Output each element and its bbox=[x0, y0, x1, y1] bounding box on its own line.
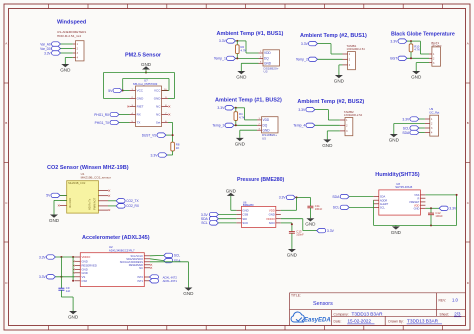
svg-text:Ambient Temp (#2, BUS2): Ambient Temp (#2, BUS2) bbox=[297, 99, 364, 105]
svg-text:REV:: REV: bbox=[439, 298, 447, 302]
svg-text:ADXL-INT1: ADXL-INT1 bbox=[163, 279, 178, 283]
ground bbox=[141, 62, 152, 73]
svg-text:T3DD13 B3AR: T3DD13 B3AR bbox=[407, 319, 439, 324]
ground bbox=[183, 288, 194, 296]
connector U9 I2C_Rpt bbox=[425, 107, 440, 136]
ground bbox=[68, 311, 79, 319]
wire bbox=[231, 199, 237, 210]
net label Var_D0 bbox=[40, 46, 60, 51]
svg-text:SCL: SCL bbox=[201, 221, 208, 225]
IC U7 PMS7003 bbox=[127, 79, 170, 127]
svg-text:1uF: 1uF bbox=[66, 289, 71, 293]
svg-text:SCL: SCL bbox=[380, 206, 386, 210]
svg-text:SCL: SCL bbox=[403, 126, 410, 130]
net label SDA bbox=[201, 217, 219, 222]
wire bbox=[419, 127, 425, 129]
svg-text:DUST_VS: DUST_VS bbox=[142, 133, 157, 137]
svg-text:Ambient Temp (#2, BUS1): Ambient Temp (#2, BUS1) bbox=[300, 33, 367, 39]
connector TAMB1 1X03HDR-2.54 bbox=[343, 44, 366, 70]
wire bbox=[349, 196, 373, 198]
wire bbox=[218, 218, 236, 220]
wire bbox=[236, 40, 259, 53]
wire bbox=[236, 57, 259, 59]
wire bbox=[61, 44, 73, 53]
net label DUST_VS bbox=[142, 133, 166, 138]
wire bbox=[318, 58, 343, 60]
net label PHG1_TX bbox=[95, 120, 119, 125]
svg-text:Var_D0: Var_D0 bbox=[40, 47, 51, 51]
ground bbox=[334, 75, 345, 83]
svg-text:1X03HDR-2.54: 1X03HDR-2.54 bbox=[344, 113, 363, 117]
svg-text:3.3V: 3.3V bbox=[39, 255, 47, 259]
wire bbox=[108, 205, 116, 207]
wire bbox=[419, 132, 425, 134]
svg-text:GND: GND bbox=[154, 97, 162, 101]
svg-text:4.7K: 4.7K bbox=[241, 49, 247, 53]
wire bbox=[419, 118, 425, 120]
net label 3.3V bbox=[39, 275, 56, 280]
svg-text:4.7K: 4.7K bbox=[239, 116, 245, 120]
wire VSS rail bbox=[425, 194, 457, 226]
svg-text:GND: GND bbox=[414, 206, 420, 210]
title block bbox=[290, 293, 466, 326]
wire 5V loop bbox=[123, 79, 169, 91]
svg-text:100nF: 100nF bbox=[435, 214, 443, 218]
svg-text:2/3: 2/3 bbox=[454, 312, 461, 317]
wire bbox=[407, 40, 429, 54]
svg-text:Vin GND: Vin GND bbox=[68, 198, 72, 208]
svg-text:Black Globe Temperature: Black Globe Temperature bbox=[391, 31, 455, 37]
wire bbox=[150, 262, 188, 288]
svg-text:ADDR: ADDR bbox=[380, 198, 387, 202]
svg-text:U5: U5 bbox=[262, 137, 266, 141]
svg-text:PM2.5 Sensor: PM2.5 Sensor bbox=[125, 53, 162, 59]
wire bbox=[394, 124, 425, 135]
svg-text:PHG1_TX: PHG1_TX bbox=[95, 121, 110, 125]
svg-text:U3: U3 bbox=[264, 70, 268, 74]
wire bbox=[234, 124, 257, 126]
svg-text:1.0: 1.0 bbox=[452, 297, 458, 302]
ground bbox=[49, 215, 60, 223]
wire bbox=[218, 222, 236, 224]
wire bbox=[119, 114, 130, 116]
net label PHG1_RX bbox=[94, 112, 119, 117]
ground bbox=[411, 71, 422, 79]
connector J1 US-ANEMOMETER1 HDR-M-2.54_1x4 bbox=[57, 30, 87, 61]
net label SDA bbox=[332, 194, 349, 199]
wire bbox=[315, 124, 340, 126]
svg-text:4.7K: 4.7K bbox=[414, 48, 420, 52]
net label CO2_RX bbox=[116, 204, 140, 209]
net label Temp_2 bbox=[296, 57, 318, 62]
section title Humidity(SHT35) bbox=[375, 172, 419, 178]
net label 3.3V bbox=[201, 212, 219, 217]
svg-text:SDA: SDA bbox=[174, 259, 181, 263]
wire bbox=[55, 276, 74, 278]
svg-text:Sensors: Sensors bbox=[313, 301, 333, 307]
svg-text:VDD: VDD bbox=[263, 118, 270, 122]
net label 5V bbox=[46, 193, 60, 198]
net label SCL bbox=[333, 205, 349, 210]
svg-text:RIET: RIET bbox=[137, 105, 144, 109]
wire bbox=[291, 233, 293, 249]
wire VDD bbox=[425, 207, 439, 213]
svg-text:HDR-M-2.54_1x4: HDR-M-2.54_1x4 bbox=[57, 34, 81, 38]
wire bbox=[119, 122, 130, 124]
svg-text:GND: GND bbox=[226, 189, 237, 194]
net label ADXL-INT2 bbox=[150, 275, 178, 280]
wire bbox=[61, 290, 73, 311]
svg-text:Windspeed: Windspeed bbox=[57, 20, 86, 26]
svg-text:GND: GND bbox=[137, 97, 145, 101]
wire GND loop bbox=[104, 73, 175, 99]
ground bbox=[287, 249, 298, 257]
wire bbox=[327, 131, 340, 140]
svg-text:5V: 5V bbox=[108, 89, 113, 93]
capacitor C11 100nF bbox=[307, 197, 322, 211]
connector BGT1 2P-Gem bbox=[429, 41, 442, 66]
svg-text:Ambient Temp (#1, BUS2): Ambient Temp (#1, BUS2) bbox=[215, 98, 282, 104]
svg-text:5V: 5V bbox=[46, 194, 51, 198]
svg-text:Accelerometer (ADXL345): Accelerometer (ADXL345) bbox=[82, 235, 150, 241]
svg-text:GND: GND bbox=[235, 141, 246, 146]
wire bbox=[167, 151, 173, 155]
svg-text:3.3V: 3.3V bbox=[39, 275, 47, 279]
svg-text:NC: NC bbox=[139, 266, 143, 270]
svg-text:HD Rx Tx: HD Rx Tx bbox=[88, 198, 92, 210]
svg-text:GND: GND bbox=[391, 230, 402, 235]
svg-text:3.3V: 3.3V bbox=[449, 207, 457, 211]
svg-text:1X03HDR-2.54: 1X03HDR-2.54 bbox=[347, 47, 366, 51]
wire bbox=[65, 58, 73, 65]
wire bbox=[315, 110, 340, 120]
wire bbox=[241, 63, 258, 71]
net label 5V bbox=[108, 88, 123, 93]
ground bbox=[322, 139, 333, 147]
net label Temp_4 bbox=[293, 123, 315, 128]
net label Temp_3 bbox=[212, 123, 234, 128]
resistor R2 4.7K bbox=[236, 41, 247, 59]
svg-text:INT2: INT2 bbox=[137, 275, 143, 279]
net label 3.3V bbox=[219, 39, 236, 44]
svg-text:Sheet:: Sheet: bbox=[440, 313, 450, 317]
resistor R10 4.7K bbox=[409, 41, 420, 58]
svg-text:1K: 1K bbox=[176, 146, 180, 150]
svg-text:15-02-2022: 15-02-2022 bbox=[348, 319, 372, 324]
net label SCL bbox=[164, 253, 181, 258]
svg-text:SCL: SCL bbox=[333, 206, 340, 210]
svg-text:3.3V: 3.3V bbox=[301, 42, 309, 46]
ground bbox=[60, 64, 71, 72]
svg-text:Ambient Temp (#1, BUS1): Ambient Temp (#1, BUS1) bbox=[217, 31, 284, 37]
net label 3.3V bbox=[301, 41, 318, 46]
wire ADDR to gnd rail bbox=[373, 200, 375, 225]
capacitor C9 1uF bbox=[58, 286, 70, 293]
svg-text:Pressure (BME280): Pressure (BME280) bbox=[237, 177, 285, 183]
ground bbox=[391, 225, 402, 234]
svg-text:GND: GND bbox=[141, 62, 152, 67]
svg-text:CS#: CS# bbox=[82, 279, 88, 283]
svg-text:GND: GND bbox=[49, 218, 60, 223]
svg-text:3.3V: 3.3V bbox=[279, 196, 287, 200]
svg-text:Date:: Date: bbox=[334, 320, 342, 324]
svg-text:CO2_RX: CO2_RX bbox=[126, 204, 140, 208]
svg-text:GND: GND bbox=[183, 291, 194, 296]
svg-text:RX: RX bbox=[137, 113, 141, 117]
wire bbox=[234, 107, 257, 120]
section title PM2.5 Sensor bbox=[125, 53, 162, 59]
wire bbox=[218, 214, 236, 216]
svg-text:ADXL345BCCZ-RL7: ADXL345BCCZ-RL7 bbox=[109, 248, 135, 252]
svg-text:INT1: INT1 bbox=[137, 279, 143, 283]
svg-text:Temp_2: Temp_2 bbox=[296, 58, 308, 62]
svg-text:TX: TX bbox=[137, 121, 141, 125]
EasyEDA logo bbox=[291, 312, 331, 324]
wire bbox=[430, 215, 432, 226]
wire bbox=[54, 200, 67, 214]
net label 3.3V bbox=[298, 107, 315, 112]
section title Ambient Temp (#1, BUS2) bbox=[215, 98, 282, 104]
svg-text:DQ: DQ bbox=[264, 57, 269, 61]
ground bbox=[236, 71, 247, 79]
resistor R4 4.7K bbox=[234, 108, 245, 126]
wire bbox=[150, 259, 164, 261]
svg-text:MHZ19B_CO2_sensor: MHZ19B_CO2_sensor bbox=[81, 176, 111, 180]
capacitor C13 100nF bbox=[289, 230, 304, 237]
svg-text:Temp_1: Temp_1 bbox=[214, 57, 226, 61]
IC U6 BME280 bbox=[236, 201, 280, 228]
net label SCL bbox=[201, 221, 218, 226]
net label 3.3V bbox=[390, 39, 407, 44]
section title Windspeed bbox=[57, 20, 86, 26]
wire bbox=[407, 57, 429, 59]
svg-text:M5-Cut_PM57003: M5-Cut_PM57003 bbox=[133, 82, 158, 86]
wire bbox=[339, 65, 343, 75]
wire bbox=[281, 196, 311, 210]
svg-text:Temp_3: Temp_3 bbox=[212, 124, 224, 128]
net label Temp_1 bbox=[214, 56, 236, 61]
svg-text:GND: GND bbox=[411, 74, 422, 79]
svg-text:CO2 Sensor (Winsen MHZ-19B): CO2 Sensor (Winsen MHZ-19B) bbox=[47, 165, 129, 171]
svg-text:GND: GND bbox=[60, 67, 71, 72]
net label ADXL-INT1 bbox=[150, 279, 178, 284]
svg-text:GND: GND bbox=[264, 62, 272, 66]
svg-text:SDA: SDA bbox=[380, 195, 386, 199]
svg-text:DQ: DQ bbox=[263, 124, 268, 128]
svg-text:3.3V: 3.3V bbox=[219, 39, 227, 43]
wire bbox=[60, 257, 62, 288]
wire bbox=[55, 256, 74, 258]
wire bbox=[416, 63, 429, 71]
net label 3.3V bbox=[439, 206, 457, 211]
wire SDO bbox=[281, 223, 293, 232]
net label 3.3V bbox=[402, 117, 419, 122]
svg-text:100nF: 100nF bbox=[296, 233, 304, 237]
wire gnd rail bbox=[374, 224, 457, 226]
svg-text:SDA: SDA bbox=[332, 195, 340, 199]
net label SDA bbox=[164, 258, 182, 263]
IC U3 DS18B20+ bbox=[259, 50, 280, 74]
svg-text:GND: GND bbox=[389, 137, 400, 142]
net label 3.3V bbox=[317, 228, 335, 233]
ground bbox=[235, 138, 246, 146]
svg-text:MHZ19B_CO2: MHZ19B_CO2 bbox=[68, 181, 86, 185]
svg-text:Humidity(SHT35): Humidity(SHT35) bbox=[375, 172, 419, 178]
svg-text:B: B bbox=[5, 121, 7, 125]
section title Pressure (BME280) bbox=[237, 177, 285, 183]
resistor R8 1K bbox=[171, 142, 180, 151]
svg-text:100nF: 100nF bbox=[315, 207, 323, 211]
capacitor C12 100nF bbox=[428, 211, 443, 218]
net label 3.3V bbox=[44, 51, 60, 56]
svg-text:VCC: VCC bbox=[137, 89, 144, 93]
net label 3.3V bbox=[39, 255, 56, 259]
svg-text:Company:: Company: bbox=[334, 312, 349, 316]
section title Black Globe Temperature bbox=[391, 31, 455, 37]
svg-text:GND: GND bbox=[334, 78, 345, 83]
svg-text:3.3V: 3.3V bbox=[390, 39, 398, 43]
svg-text:TITLE:: TITLE: bbox=[291, 293, 301, 297]
svg-text:ALERT: ALERT bbox=[380, 202, 389, 206]
svg-text:GND: GND bbox=[322, 143, 333, 148]
svg-text:3.3V: 3.3V bbox=[151, 153, 159, 157]
svg-text:SHT35-DIS-B: SHT35-DIS-B bbox=[395, 185, 412, 189]
wire bbox=[108, 200, 116, 202]
ground bbox=[226, 189, 237, 199]
wire Set to resistor bbox=[168, 123, 173, 143]
wire bbox=[150, 254, 164, 256]
section title Ambient Temp (#2, BUS1) bbox=[300, 33, 367, 39]
svg-text:GND: GND bbox=[263, 128, 271, 132]
wire bbox=[318, 44, 343, 54]
IC U2 ADXL345BCCZ-RL7 bbox=[73, 245, 152, 287]
wire VDDIO bbox=[281, 219, 317, 231]
svg-text:3.3V: 3.3V bbox=[217, 106, 225, 110]
section title Ambient Temp (#1, BUS1) bbox=[217, 31, 284, 37]
net label Var_A0 bbox=[40, 42, 60, 47]
svg-text:Temp_4: Temp_4 bbox=[293, 124, 305, 128]
ground bbox=[389, 134, 400, 142]
svg-text:CO2_TX: CO2_TX bbox=[126, 199, 139, 203]
svg-text:SCK: SCK bbox=[242, 221, 248, 225]
svg-text:SDO: SDO bbox=[269, 221, 276, 225]
svg-text:PWM AOT: PWM AOT bbox=[93, 197, 97, 210]
section title Ambient Temp (#2, BUS2) bbox=[297, 99, 364, 105]
svg-text:SCL: SCL bbox=[174, 254, 180, 258]
wire bbox=[72, 257, 74, 282]
svg-text:T3DD13 B3AR: T3DD13 B3AR bbox=[352, 311, 384, 316]
connector TAMB2 1X03HDR-2.54 bbox=[340, 110, 363, 136]
IC U5 DS18B20+ bbox=[257, 117, 278, 141]
svg-text:B: B bbox=[467, 121, 469, 125]
svg-text:BGT: BGT bbox=[390, 57, 397, 61]
wire bbox=[309, 208, 311, 219]
IC U8 SHT35-DIS-B bbox=[373, 182, 425, 215]
ground bbox=[305, 218, 316, 226]
svg-text:VCC: VCC bbox=[154, 89, 161, 93]
svg-text:R: R bbox=[418, 196, 420, 200]
wire bbox=[349, 206, 373, 208]
svg-text:EasyEDA: EasyEDA bbox=[304, 318, 331, 324]
section title CO2 Sensor (Winsen MHZ-19B) bbox=[47, 165, 129, 171]
net label SCL bbox=[403, 126, 419, 131]
svg-text:GND: GND bbox=[305, 222, 316, 227]
svg-text:3.3V: 3.3V bbox=[327, 229, 335, 233]
svg-text:VDD: VDD bbox=[264, 51, 271, 55]
svg-text:A: A bbox=[467, 42, 469, 46]
svg-text:3.3V: 3.3V bbox=[402, 117, 410, 121]
wire bbox=[240, 130, 257, 138]
net label BGT bbox=[390, 56, 407, 61]
net label CO2_TX bbox=[116, 199, 139, 204]
svg-text:GND: GND bbox=[68, 314, 79, 319]
wire bbox=[123, 90, 130, 92]
svg-text:3.3V: 3.3V bbox=[298, 108, 306, 112]
section title Accelerometer (ADXL345) bbox=[82, 235, 150, 241]
svg-text:GND: GND bbox=[287, 252, 298, 257]
svg-text:A: A bbox=[5, 42, 7, 46]
svg-text:GND: GND bbox=[236, 74, 247, 79]
net label SDA bbox=[402, 130, 419, 135]
wire bbox=[60, 194, 67, 196]
svg-text:3.3V: 3.3V bbox=[44, 51, 51, 55]
svg-text:Drawn By:: Drawn By: bbox=[388, 320, 403, 324]
svg-text:I2C_Rpt: I2C_Rpt bbox=[429, 110, 439, 114]
net label 3.3V bbox=[217, 106, 234, 111]
svg-text:PHG1_RX: PHG1_RX bbox=[94, 113, 110, 117]
svg-text:SDA: SDA bbox=[402, 131, 410, 135]
net label 3.3V bbox=[279, 195, 296, 200]
svg-text:Var_A0: Var_A0 bbox=[40, 42, 51, 46]
svg-text:Set: Set bbox=[156, 121, 161, 125]
net label 3.3V bbox=[151, 153, 168, 158]
IC U1 MHZ19B_CO2_sensor bbox=[58, 172, 111, 213]
wire bbox=[166, 134, 174, 136]
